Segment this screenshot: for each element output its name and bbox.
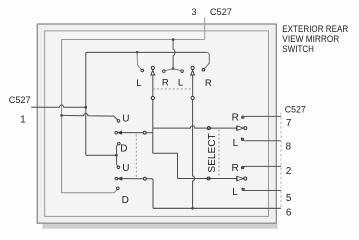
select row L1 pivot circle — [143, 131, 146, 134]
exterior rear view mirror switch outer housing box — [37, 24, 276, 223]
svg-text:L: L — [178, 78, 183, 89]
svg-text:R: R — [205, 78, 212, 89]
L contact of row R1 — [241, 138, 243, 140]
svg-text:L: L — [232, 187, 238, 198]
R contact of row R2 — [242, 166, 244, 168]
node: rocker pivot junction — [172, 67, 175, 70]
inner housing box — [45, 31, 269, 217]
node: pole 2 to bus junction — [191, 207, 194, 210]
pole 2 shaft circle — [191, 96, 194, 99]
left/right mirror pole 1 tip circle — [151, 66, 154, 69]
lower D contact circle — [117, 187, 120, 190]
svg-text:U: U — [122, 114, 129, 125]
select row L2 left arrowhead — [118, 177, 122, 180]
select row R1 pivot circle — [207, 127, 210, 130]
svg-text:SWITCH: SWITCH — [282, 43, 314, 54]
svg-text:C527: C527 — [285, 104, 306, 114]
wire B left edge — [85, 52, 87, 155]
pin 2 wire — [244, 165, 281, 167]
ground bus wire to pin 6 — [153, 207, 281, 209]
svg-text:6: 6 — [286, 207, 292, 218]
tick on L contact R1 — [241, 138, 243, 140]
tick on R contact R2 — [241, 167, 243, 169]
select row L1 wire — [121, 132, 143, 134]
wire B top-right rounded corner down to R blade — [204, 52, 209, 68]
node: D/U bracket feed junction — [115, 154, 118, 157]
select row L2 wire to ground bus corner — [146, 179, 153, 209]
U contact circle (upper) — [117, 120, 120, 123]
connector C527 pin 3 lead — [204, 17, 206, 39]
node: pin1 wire to wire B junction — [85, 106, 88, 109]
select row R2 wire — [178, 178, 237, 180]
pole 1 wire down to select rows — [152, 100, 154, 154]
svg-text:8: 8 — [286, 142, 292, 153]
svg-text:L: L — [136, 78, 141, 89]
pole 1 up arrowhead — [151, 70, 155, 75]
select row L1 left arrowhead — [118, 131, 122, 134]
pole 2 wire down to ground bus, hops over select row 2 — [193, 100, 195, 209]
D/U bracket tick bottom — [117, 165, 118, 167]
rocker bar right half — [173, 69, 181, 71]
svg-text:L: L — [233, 138, 239, 149]
dashed mechanical link between pole 1 and pole 2 — [153, 88, 193, 90]
node: L blade junction on wire B — [136, 51, 139, 54]
wire B bottom run to D/U bracket — [86, 154, 116, 156]
select row L2 wire — [122, 178, 144, 180]
wire A bottom run to lower D contact — [62, 189, 118, 193]
dashed connector C527 plane on right — [280, 113, 282, 209]
select row R1 right arrowhead — [236, 126, 238, 131]
svg-text:SELECT: SELECT — [207, 133, 218, 172]
svg-text:7: 7 — [286, 118, 292, 129]
select row L2 fixed tip circle — [115, 177, 118, 180]
tick on L contact R2 — [242, 188, 244, 190]
pole 1 shaft — [152, 75, 154, 96]
staircase wire from pole1 column to select row 2 — [153, 153, 178, 178]
select row R2 pivot circle — [207, 177, 210, 180]
rocker left contact circle (R) — [163, 70, 166, 73]
switch body shadow — [43, 224, 278, 229]
rocker bar left half — [165, 69, 173, 71]
switch blade to L contact (top left) — [137, 52, 141, 69]
svg-text:3: 3 — [191, 7, 196, 17]
svg-text:C527: C527 — [210, 7, 232, 17]
node: rocker feed junction on wire A — [172, 38, 175, 41]
pole 2 shaft — [192, 75, 194, 96]
select row R2 tip circle — [244, 177, 247, 180]
pin 1 wire from C527 — [31, 105, 86, 107]
wire: U contact feed with hop over wire B — [62, 113, 118, 120]
select row L1 stub to pole1 column — [146, 132, 153, 134]
svg-text:R: R — [162, 78, 169, 89]
dashed mechanical link between select rows L1 and L2 — [135, 135, 137, 177]
D/U bracket vertical — [116, 146, 118, 165]
pin 8 wire — [244, 140, 281, 142]
select row R2 right arrowhead — [236, 176, 238, 181]
svg-text:1: 1 — [20, 115, 26, 126]
pin 5 wire — [244, 190, 281, 192]
D/U bracket tick top — [117, 145, 118, 147]
svg-text:R: R — [232, 113, 239, 124]
pole 1 shaft circle — [151, 96, 154, 99]
select row R1 wire with hop over pole2 shaft — [153, 126, 237, 128]
select row L1 fixed tip circle — [115, 131, 118, 134]
node: U feed junction on wire A — [60, 114, 63, 117]
rocker right contact circle (L) — [181, 70, 184, 73]
wire: rocker feed vertical with hop over wire B — [173, 40, 175, 69]
wire A top (pin3 feed to rocker common and lower D contact) — [62, 39, 205, 41]
svg-text:U: U — [122, 163, 129, 174]
select row R1 tip circle — [244, 127, 247, 130]
wire B top (pin1 common feed) — [86, 51, 207, 53]
pole 2 tip circle — [191, 66, 194, 69]
svg-text:D: D — [122, 195, 129, 206]
tick on R contact R1 — [241, 117, 243, 119]
svg-text:D: D — [120, 144, 127, 155]
svg-text:2: 2 — [286, 166, 292, 177]
svg-text:C527: C527 — [9, 95, 31, 105]
select row L2 pivot circle — [144, 177, 147, 180]
svg-text:5: 5 — [286, 193, 292, 204]
pin 7 wire — [244, 115, 281, 117]
wire A left edge — [61, 40, 63, 193]
R contact of row R1 — [242, 116, 244, 118]
D contact circle (upper bracket) — [118, 142, 121, 145]
L contact of row R2 — [242, 188, 244, 190]
svg-text:R: R — [232, 163, 239, 174]
dashed mechanical link between select rows R1 and R2 — [218, 130, 220, 177]
L blade contact circle — [141, 69, 144, 72]
U contact circle (lower bracket) — [117, 166, 120, 169]
pole 2 up arrowhead — [191, 70, 195, 75]
switch blade contact R (top right) — [202, 69, 205, 72]
